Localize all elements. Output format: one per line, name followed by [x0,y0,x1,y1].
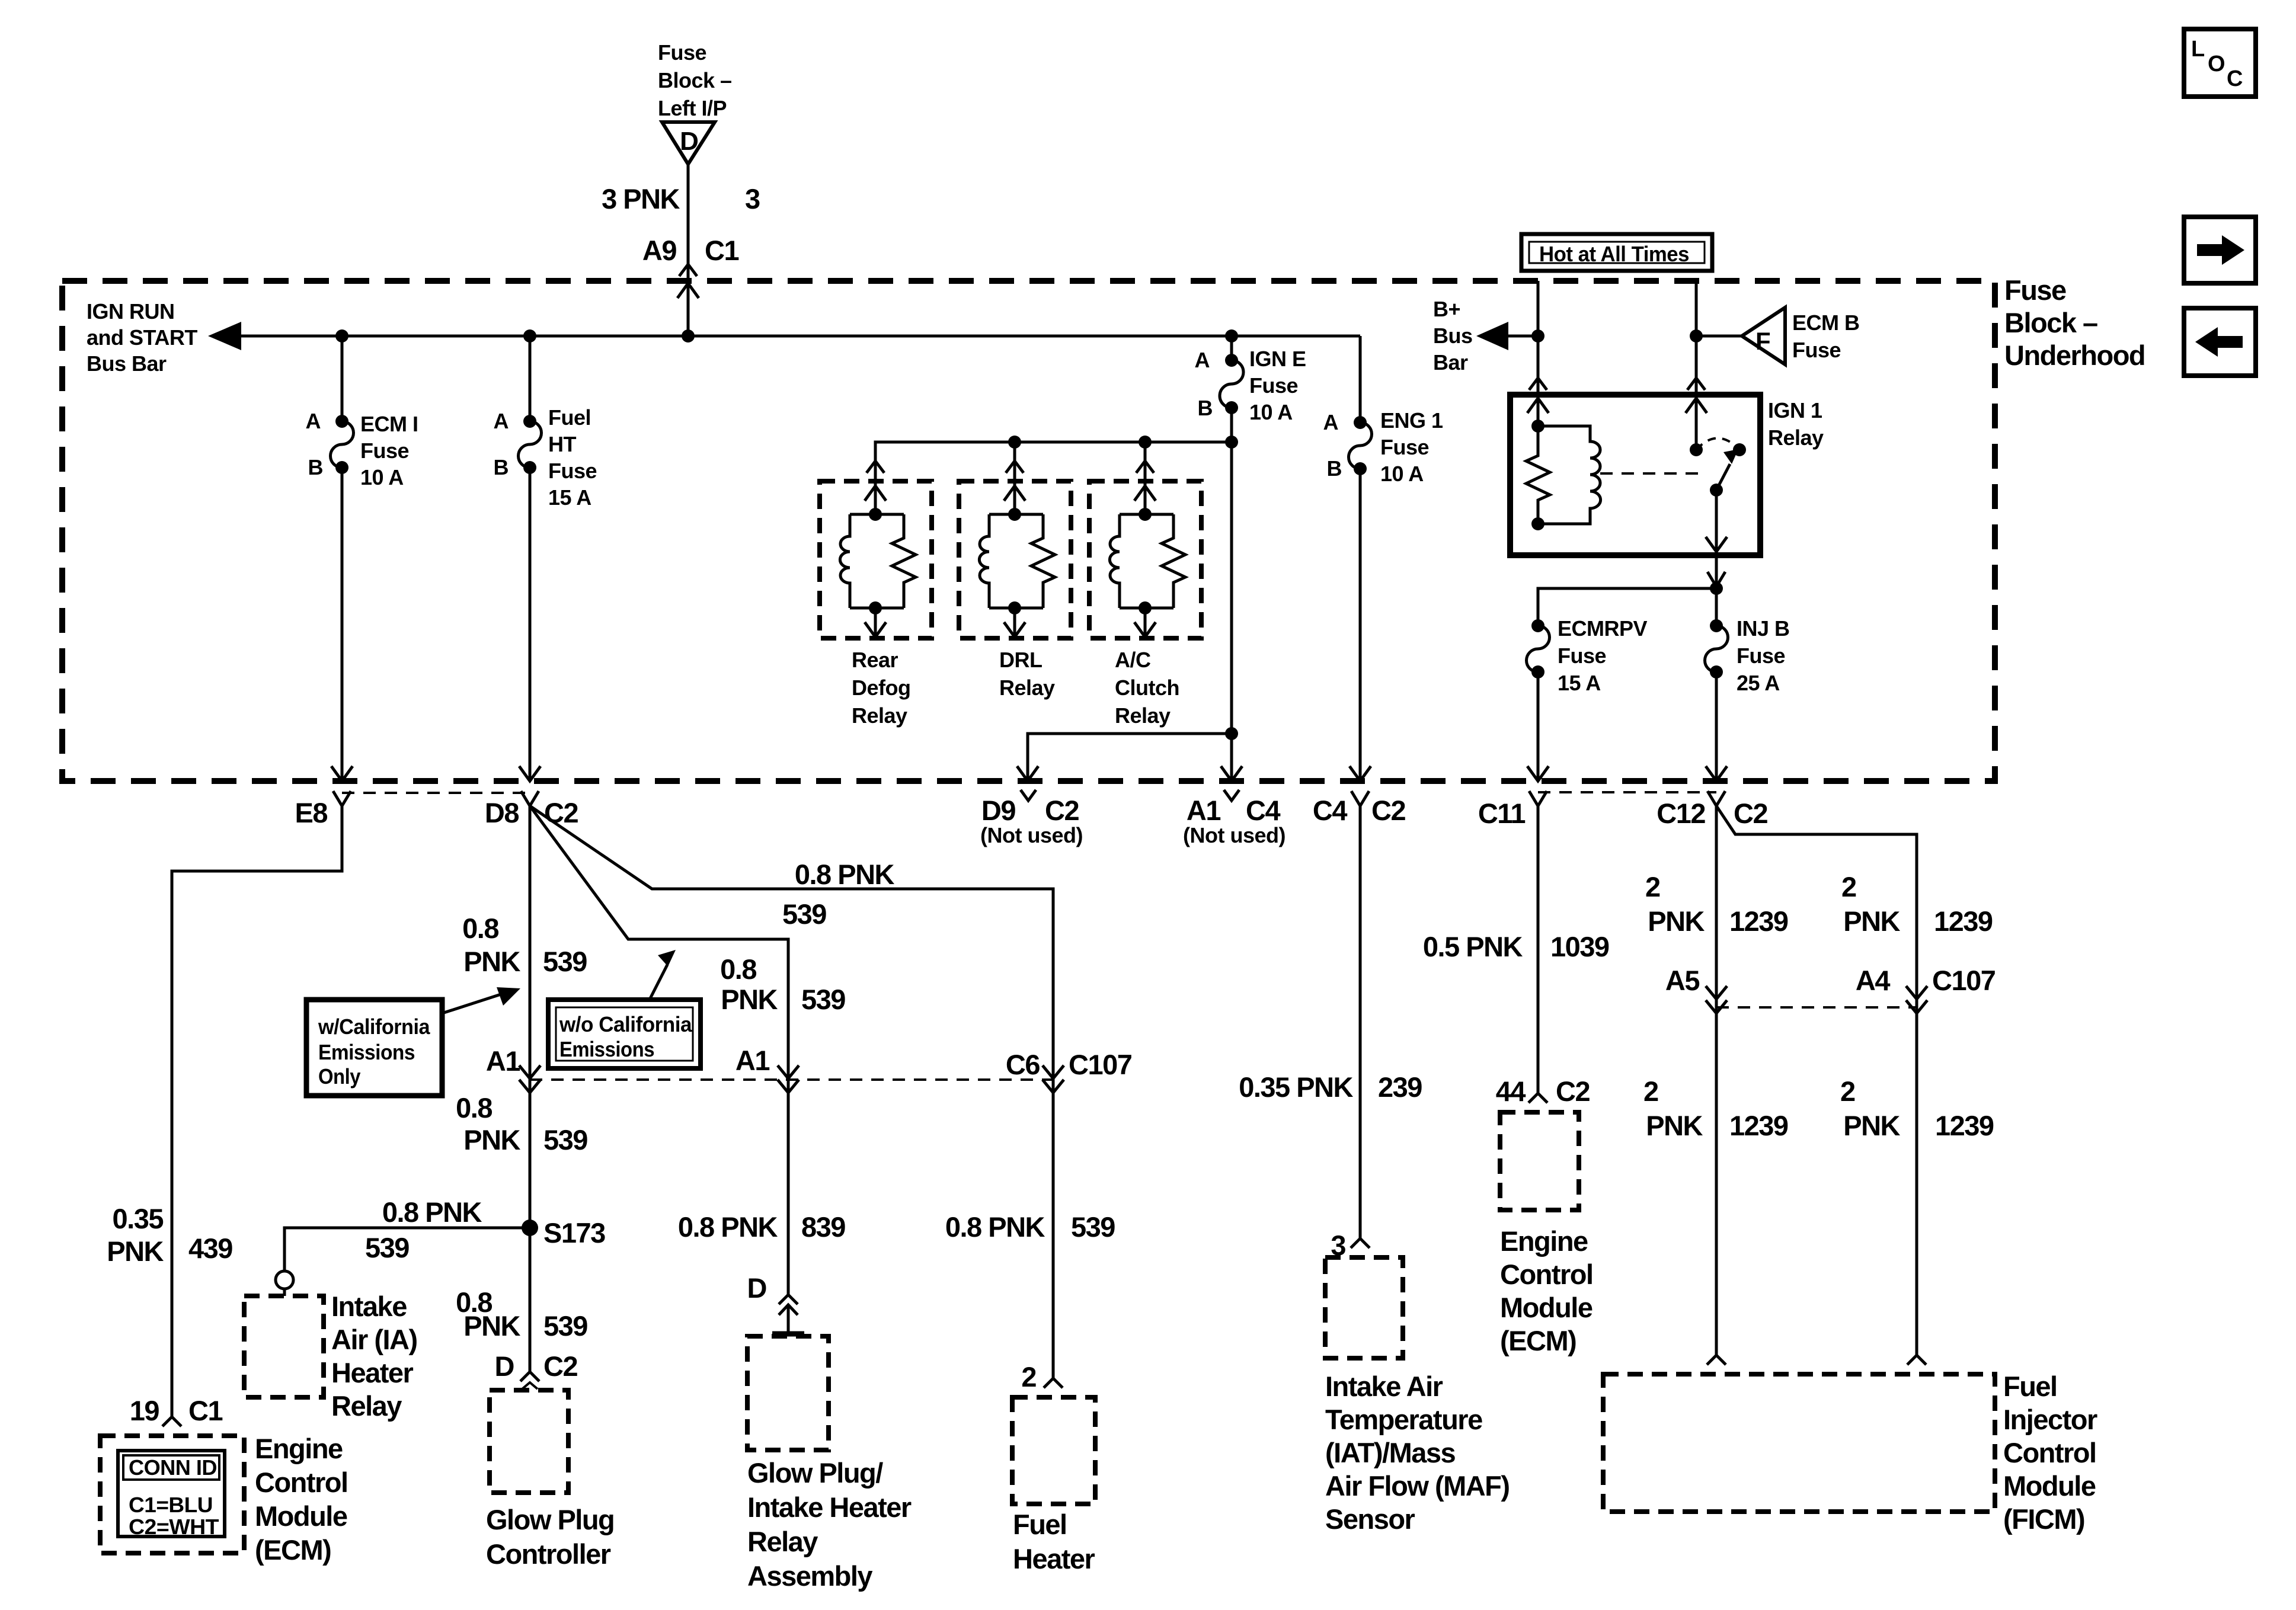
svg-text:C2: C2 [543,1350,577,1382]
svg-text:Only: Only [318,1064,360,1089]
svg-text:Heater: Heater [1013,1543,1095,1574]
svg-text:CONN ID: CONN ID [129,1455,217,1480]
svg-text:A5: A5 [1665,965,1699,996]
fuse INJ B 25A [1705,588,1728,678]
junction node relay feed [1225,436,1238,449]
label: Intake Air (IA) Heater Relay [331,1291,417,1422]
Hot at All Times power label box [1521,234,1712,271]
svg-text:Fuse: Fuse [1249,373,1298,398]
thin dashed connector line C11-C12 [1538,791,1716,793]
svg-text:F: F [1755,327,1771,355]
svg-text:Fuel: Fuel [1013,1509,1067,1540]
svg-text:25 A: 25 A [1737,671,1780,695]
svg-text:B: B [494,455,509,479]
svg-text:PNK: PNK [1646,1110,1703,1141]
svg-text:INJ B: INJ B [1737,616,1790,641]
label: Fuel HT Fuse 15 A [548,405,597,510]
thin dashed connector line E8-D8 [342,792,530,794]
connector fork into IGN 1 relay (left) [1529,378,1547,390]
connector C11 at boundary [1529,791,1547,806]
wire bus elbow down to ENG 1 fuse [1359,336,1362,422]
svg-text:PNK: PNK [721,984,778,1015]
fuse block underhood boundary (dashed box) [62,281,1995,781]
svg-text:2: 2 [1645,871,1660,902]
wire into Rear Defog Relay [865,461,886,514]
wire ECM B feed [1695,281,1698,395]
wire IGN E fuse down to boundary A1/C4 [1221,408,1242,781]
svg-text:10 A: 10 A [1249,400,1293,424]
svg-text:539: 539 [543,946,587,977]
svg-text:539: 539 [543,1124,587,1156]
wire from IGN E column to D9 [1017,734,1232,781]
svg-text:1239: 1239 [1934,905,1993,937]
svg-text:Temperature: Temperature [1325,1404,1482,1435]
wire junction to ECMRPV fuse [1538,588,1716,626]
svg-text:0.35 PNK: 0.35 PNK [1239,1071,1353,1103]
svg-text:PNK: PNK [463,1310,520,1342]
svg-text:D: D [495,1350,514,1382]
svg-text:Fuse: Fuse [548,459,597,483]
svg-text:C1: C1 [705,235,738,266]
connector A1/C4 (Not used) [1224,790,1239,801]
IGN 1 relay switch throw contact [1696,438,1746,457]
svg-text:IGN E: IGN E [1249,347,1306,371]
wire E8 to ECM pin 19 [162,806,342,1426]
Glow Plug Controller dashed box [490,1390,568,1493]
svg-text:C107: C107 [1069,1049,1132,1080]
label: B+ Bus Bar [1433,297,1473,375]
wire C4 down to IAT/MAF sensor [1351,806,1370,1248]
svg-text:A1: A1 [486,1045,520,1077]
svg-text:Relay: Relay [999,676,1055,700]
svg-text:2: 2 [1840,1076,1855,1107]
svg-text:Fuel: Fuel [2003,1371,2057,1402]
svg-text:Module: Module [255,1500,347,1532]
svg-text:w/o California: w/o California [559,1012,692,1036]
svg-text:PNK: PNK [463,946,520,977]
svg-text:A: A [1195,348,1210,372]
svg-text:539: 539 [801,984,845,1015]
svg-text:ECM B: ECM B [1792,311,1860,335]
svg-text:D: D [747,1272,766,1304]
svg-text:A: A [494,409,509,433]
wire Fuel HT fuse to boundary D8 [519,468,541,781]
svg-text:3 PNK: 3 PNK [602,183,680,215]
label: Engine Control Module (ECM) left [255,1433,348,1566]
svg-text:A9: A9 [642,235,676,266]
svg-text:Air Flow (MAF): Air Flow (MAF) [1325,1470,1510,1502]
svg-text:15 A: 15 A [1558,671,1601,695]
svg-text:C11: C11 [1478,798,1525,829]
wire bus to Fuel HT fuse [529,336,532,421]
wire drop to A/C clutch relay [1144,442,1147,468]
label: ECM B Fuse [1792,311,1860,362]
IGN 1 relay resistor [1526,420,1550,530]
junction node on bus at Fuel HT fuse [523,329,536,343]
svg-text:A4: A4 [1856,965,1890,996]
label: IGN RUN and START Bus Bar [87,299,197,376]
label: Intake Air Temperature (IAT)/Mass Air Flow (MAF) Sensor [1325,1371,1510,1535]
svg-text:0.8: 0.8 [456,1092,492,1124]
svg-text:C4: C4 [1313,795,1347,826]
svg-text:Fuse: Fuse [1737,644,1785,668]
thin dashed connector line A1-C6 (C107) [530,1078,1053,1081]
svg-text:Relay: Relay [1115,703,1171,728]
svg-text:Intake Heater: Intake Heater [747,1491,912,1523]
label: A/C Clutch Relay [1115,648,1179,728]
relay A/C Clutch Relay (coil and resistor in dashed box) [1089,481,1201,638]
svg-text:B: B [1198,396,1213,420]
svg-text:Hot at All Times: Hot at All Times [1539,242,1689,266]
svg-text:IGN RUN: IGN RUN [87,299,175,324]
Fuel Heater dashed box [1012,1397,1095,1504]
svg-text:1239: 1239 [1729,905,1788,937]
svg-text:C2: C2 [1045,795,1079,826]
svg-text:Injector: Injector [2003,1404,2097,1435]
label: ENG 1 Fuse 10 A [1380,408,1443,486]
wire D8 main down to glow plug controller [519,806,541,1389]
svg-text:A: A [306,409,321,433]
callout box w/California Emissions Only [306,1000,442,1096]
svg-text:C2: C2 [1734,798,1767,829]
svg-text:Controller: Controller [486,1538,611,1570]
connector E8 at boundary [333,791,351,806]
connector D8/C2 at boundary [521,791,539,806]
wire ECM I fuse to boundary E8 [331,468,353,781]
svg-text:C4: C4 [1246,795,1280,826]
wire S173 to Intake Air heater relay [284,1228,530,1272]
svg-text:Clutch: Clutch [1115,676,1179,700]
IGN 1 relay switch output arrow [1706,490,1727,552]
svg-text:439: 439 [188,1233,232,1264]
svg-text:(Not used): (Not used) [1183,823,1285,847]
IGN 1 relay coil [1538,426,1601,524]
svg-text:Sensor: Sensor [1325,1503,1415,1535]
svg-text:ECMRPV: ECMRPV [1558,616,1648,641]
wire into DRL Relay [1004,461,1025,514]
svg-text:D9: D9 [981,795,1015,826]
IGN 1 relay switch blade [1710,449,1738,497]
svg-text:A: A [1323,410,1339,434]
label: Fuel Injector Control Module (FICM) [2003,1371,2097,1535]
svg-text:C107: C107 [1932,965,1996,996]
svg-text:C2: C2 [544,797,578,828]
svg-text:Control: Control [2003,1437,2096,1468]
svg-text:Fuse: Fuse [360,438,409,463]
splice S173 [522,1219,538,1236]
svg-text:Fuse: Fuse [2004,274,2066,306]
svg-text:HT: HT [548,432,576,456]
svg-text:ECM I: ECM I [360,412,418,436]
Intake Air (IA) Heater Relay dashed box [244,1296,324,1397]
svg-text:Fuse: Fuse [1792,338,1841,362]
svg-text:Relay: Relay [747,1526,818,1557]
callout box w/o California Emissions [548,1000,701,1068]
svg-text:539: 539 [365,1232,409,1263]
svg-text:PNK: PNK [1648,905,1705,937]
wire INJ B fuse to boundary C12 [1706,672,1727,781]
thin dashed connector line A5-A4 (C107) [1716,1006,1917,1009]
svg-text:Block –: Block – [2004,307,2097,338]
terminal ring at IA heater relay [276,1271,293,1289]
svg-text:Heater: Heater [331,1357,414,1388]
connector triangle F to ECM B Fuse [1696,308,1785,364]
svg-text:Relay: Relay [331,1390,402,1422]
svg-text:ENG 1: ENG 1 [1380,408,1443,433]
svg-text:B: B [1327,456,1342,481]
label: DRL Relay [999,648,1055,700]
callout arrow to wire 539 [442,987,520,1013]
svg-text:Control: Control [1500,1259,1593,1290]
svg-text:PNK: PNK [1843,1110,1900,1141]
label: Rear Defog Relay [852,648,911,728]
svg-text:and START: and START [87,325,197,350]
label: IGN E Fuse 10 A [1249,347,1306,424]
wire ring to IA relay box [283,1289,286,1296]
svg-text:(ECM): (ECM) [255,1534,331,1566]
svg-text:(ECM): (ECM) [1500,1325,1576,1356]
svg-text:Engine: Engine [255,1433,343,1464]
svg-text:A/C: A/C [1115,648,1151,672]
fuse Fuel HT 15A [519,415,542,474]
svg-text:239: 239 [1378,1071,1422,1103]
svg-text:Fuse: Fuse [1558,644,1606,668]
svg-text:Left I/P: Left I/P [658,96,727,120]
svg-text:Relay: Relay [1768,425,1824,450]
wire D8 branch to fuel heater C6 [530,806,1064,1388]
svg-text:839: 839 [801,1211,845,1243]
svg-text:539: 539 [543,1310,587,1342]
svg-text:Bar: Bar [1433,350,1468,375]
svg-text:Emissions: Emissions [559,1037,654,1061]
svg-text:Air (IA): Air (IA) [331,1324,417,1355]
wire ECMRPV fuse to boundary C11 [1527,672,1549,781]
svg-text:0.8 PNK: 0.8 PNK [795,859,895,890]
FICM dashed box [1603,1374,1995,1512]
svg-text:B+: B+ [1433,297,1460,321]
fuse IGN E 10A [1220,336,1243,414]
label: Glow Plug Controller [486,1504,614,1570]
svg-text:0.8: 0.8 [462,913,498,944]
svg-text:3: 3 [745,183,760,215]
svg-text:D: D [680,127,699,156]
wire C12 left leg to FICM A5 [1706,806,1727,1365]
svg-text:Fuse: Fuse [658,40,706,65]
fuse ECM I 10A [331,415,354,474]
junction node on bus at A9 feed [682,329,695,343]
svg-text:15 A: 15 A [548,485,591,510]
wire relay feed from IGN E fuse [875,442,1232,468]
svg-text:Fuel: Fuel [548,405,591,430]
svg-text:0.8 PNK: 0.8 PNK [678,1211,778,1243]
svg-text:A1: A1 [736,1045,769,1076]
IGN 1 relay switch input [1686,395,1707,456]
svg-text:IGN 1: IGN 1 [1768,398,1822,422]
junction node on bus at IGN E fuse [1225,329,1238,343]
svg-text:(FICM): (FICM) [2003,1503,2084,1535]
wire relay output to junction [1707,555,1725,595]
svg-text:B: B [308,455,324,479]
wire ENG 1 fuse to boundary C4 [1350,469,1371,781]
svg-text:C1=BLU: C1=BLU [129,1493,213,1517]
IGN 1 relay coil branch entry arrow [1527,395,1549,426]
svg-text:DRL: DRL [999,648,1043,672]
connector D9/C2 (Not used) [1021,790,1036,801]
svg-text:Intake Air: Intake Air [1325,1371,1443,1402]
svg-text:D8: D8 [485,797,519,828]
svg-text:C2: C2 [1371,795,1405,826]
svg-text:1239: 1239 [1729,1110,1788,1141]
svg-text:Control: Control [255,1467,348,1498]
label: Fuel Heater [1013,1509,1095,1574]
wire B+ feed from Hot at All Times [1537,281,1540,395]
svg-text:Module: Module [2003,1470,2096,1502]
svg-text:(Not used): (Not used) [980,823,1083,847]
ECM (left) dashed box [100,1436,244,1553]
callout arrow to wire 839 [650,950,676,1000]
svg-text:Bus Bar: Bus Bar [87,351,167,376]
Glow Plug/Intake Heater Relay Assembly dashed box [747,1336,829,1450]
svg-text:PNK: PNK [463,1124,520,1156]
back arrow navigation box [2184,308,2256,376]
label: Fuse Block - Left I/P [658,40,732,120]
IAT/MAF sensor dashed box [1325,1257,1403,1358]
svg-text:Bus: Bus [1433,324,1473,348]
junction node on bus at ECM I fuse [335,329,348,343]
svg-text:Assembly: Assembly [747,1560,872,1592]
wire C11 to ECM pin 44 [1528,806,1547,1103]
svg-text:0.5 PNK: 0.5 PNK [1423,931,1523,962]
label: ECMRPV Fuse 15 A [1558,616,1648,695]
svg-text:10 A: 10 A [360,465,404,489]
wire bus to ECM I fuse [341,336,344,421]
wire D8 branch to glow plug relay assembly [530,806,804,1334]
svg-text:Relay: Relay [852,703,907,728]
svg-text:2: 2 [1643,1076,1658,1107]
junction node ECM B [1690,329,1703,343]
wire into A/C Clutch Relay [1134,461,1156,514]
label: Fuse Block - Underhood [2004,274,2145,371]
svg-text:PNK: PNK [1843,905,1900,937]
relay IGN 1 box [1510,395,1760,555]
svg-text:L: L [2191,37,2205,62]
svg-text:Glow Plug/: Glow Plug/ [747,1457,883,1489]
label: ECM I Fuse 10 A [360,412,418,489]
junction node D9 branch [1225,727,1238,740]
svg-text:(IAT)/Mass: (IAT)/Mass [1325,1437,1456,1468]
fuse ECMRPV 15A [1527,619,1550,678]
svg-text:Intake: Intake [331,1291,407,1322]
CONN ID table [118,1451,225,1539]
svg-text:2: 2 [1021,1361,1036,1393]
svg-text:PNK: PNK [107,1235,164,1267]
svg-text:44: 44 [1496,1076,1526,1107]
svg-text:0.35: 0.35 [113,1203,164,1234]
relay DRL Relay (coil and resistor in dashed box) [959,481,1071,638]
IGN 1 relay coil-switch dashed link [1600,472,1705,475]
svg-text:Block –: Block – [658,68,732,92]
relay Rear Defog Relay (coil and resistor in dashed box) [820,481,932,638]
label: INJ B Fuse 25 A [1737,616,1790,695]
svg-text:Module: Module [1500,1292,1593,1323]
svg-text:1239: 1239 [1935,1110,1994,1141]
connector C12/C2 at boundary [1707,791,1725,806]
svg-text:0.8: 0.8 [720,953,756,985]
label: Glow Plug/Intake Heater Relay Assembly [747,1457,912,1592]
IGN RUN and START bus bar wire with arrow [208,322,1360,350]
svg-text:w/California: w/California [318,1014,430,1039]
fuse ENG 1 10A [1349,416,1372,475]
wire C12 right leg to FICM A4 [1716,806,1927,1365]
svg-text:0.8 PNK: 0.8 PNK [945,1211,1045,1243]
svg-text:Defog: Defog [852,676,911,700]
svg-text:1039: 1039 [1550,931,1609,962]
svg-text:C2: C2 [1556,1076,1590,1107]
svg-text:Glow Plug: Glow Plug [486,1504,614,1535]
svg-text:Engine: Engine [1500,1225,1588,1257]
connector fork into IGN 1 relay (right) [1687,378,1705,390]
connector A9/C1 at fuse block boundary [677,264,699,298]
B+ bus bar arrow [1476,322,1538,350]
svg-text:Emissions: Emissions [318,1040,415,1064]
svg-text:0.8 PNK: 0.8 PNK [382,1196,482,1228]
svg-text:O: O [2208,52,2225,76]
svg-text:539: 539 [1071,1211,1115,1243]
svg-text:Underhood: Underhood [2004,340,2145,371]
svg-text:Fuse: Fuse [1380,435,1429,459]
svg-text:19: 19 [130,1395,159,1426]
svg-text:Rear: Rear [852,648,898,672]
forward arrow navigation box [2184,217,2256,283]
svg-text:C2=WHT: C2=WHT [129,1515,219,1539]
svg-text:2: 2 [1841,871,1856,902]
svg-text:539: 539 [782,898,826,930]
ECM (right) dashed box [1500,1112,1579,1210]
connector triangle D to Fuse Block - Left I/P [662,122,715,164]
label: Engine Control Module (ECM) [1500,1225,1593,1356]
svg-text:10 A: 10 A [1380,462,1424,486]
label: IGN 1 Relay [1768,398,1824,450]
svg-text:A1: A1 [1187,795,1220,826]
svg-text:E8: E8 [295,797,328,828]
svg-text:C6: C6 [1006,1049,1040,1080]
svg-text:C1: C1 [188,1395,222,1426]
connector C4/C2 at boundary [1351,791,1369,806]
wire from connector D down into fuse block to bus bar [687,164,690,336]
junction node B+ [1531,329,1544,343]
LOC reference box [2184,29,2256,97]
svg-text:C: C [2227,66,2243,91]
svg-text:S173: S173 [543,1217,605,1249]
svg-text:C12: C12 [1657,798,1705,829]
wire drop to DRL relay [1013,442,1016,468]
